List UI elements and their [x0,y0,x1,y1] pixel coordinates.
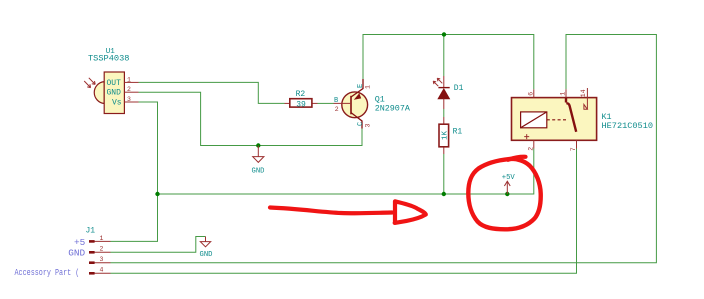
IR receiver U1 body [94,72,124,114]
GND label near J1 [200,251,213,259]
svg-text:3: 3 [100,256,104,263]
svg-text:+5: +5 [74,237,86,248]
svg-text:Vs: Vs [112,98,122,107]
connector J1 pin 1 [89,235,111,243]
svg-text:R1: R1 [453,127,463,136]
svg-text:2N2907A: 2N2907A [375,104,411,114]
wire +5V bus horizontal [158,149,534,195]
connector J1 pin 2 [89,246,111,254]
U1 pin name OUT [107,79,122,88]
junction node bus at Vs [155,192,159,196]
annotation red arrow [270,201,426,223]
svg-text:6: 6 [528,92,535,96]
wire J1 pin1 +5 up to bus [111,194,158,241]
junction node bus at R1 [442,192,446,196]
R2 reference label [296,90,306,99]
Q1 reference label [375,95,385,105]
wire top rail emitter to relay pin6 [363,35,534,90]
net label Accessory Part ( [15,268,80,278]
svg-text:14: 14 [580,89,587,97]
U1 pin name GND [107,89,122,98]
wire D1 branch from top rail [443,35,445,195]
D1 emission arrows [433,78,442,86]
svg-text:TSSP4038: TSSP4038 [88,53,130,63]
svg-text:3: 3 [364,124,371,128]
svg-text:2: 2 [127,86,131,93]
+5V label [502,174,516,182]
Q1 pin name C [357,122,365,126]
J1 reference label [86,226,96,235]
junction node GND tap [256,143,260,147]
resistor R1 [439,117,449,154]
wire U1 pin1 OUT to R2 [139,82,285,103]
D1 reference label [454,84,464,93]
ground symbol near J1 [200,237,210,247]
K1 reference label [602,112,612,122]
svg-text:7: 7 [570,147,577,151]
LED D1 [438,76,450,109]
Q1 pin number 3 [364,124,371,128]
resistor R2 [285,99,318,107]
Q1 value 2N2907A [375,104,411,114]
svg-text:1: 1 [560,92,567,96]
annotation red circle around +5V [468,157,540,230]
U1 IR input arrows [84,78,95,88]
Q1 pin name E [357,84,365,88]
ground symbol near U1 [253,146,264,163]
K1 pin 7 [570,140,577,151]
svg-text:GND: GND [252,168,265,176]
svg-text:3: 3 [127,96,131,103]
svg-text:1: 1 [364,85,371,89]
svg-text:D1: D1 [454,84,464,93]
svg-text:J1: J1 [86,226,96,235]
svg-text:4: 4 [100,267,104,274]
R1 value 1K [441,131,449,141]
U1 pin name Vs [112,98,122,107]
U1 pin 1 [124,76,138,83]
svg-text:+5V: +5V [502,174,516,182]
svg-text:1: 1 [100,235,104,242]
junction node bus at +5V [505,192,509,196]
svg-text:GND: GND [200,251,213,259]
wire R2 to Q1 base [318,102,334,104]
connector J1 pin 3 [89,256,111,264]
R2 value 39 [296,100,306,109]
svg-text:R2: R2 [296,90,306,99]
wire U1 pin3 Vs down to +5V bus [139,102,158,194]
connector J1 pin 4 [89,267,111,275]
transistor Q1 [334,79,368,129]
svg-text:GND: GND [107,89,122,98]
K1 value HE721C0510 [602,121,654,131]
U1 pin 2 [124,86,138,93]
relay K1 body [512,98,597,141]
K1 pin 1 [560,89,567,97]
wire J1 pin4 to relay pin7 [111,149,577,274]
svg-text:1K: 1K [441,131,449,141]
junction node top rail at D1 [442,32,446,36]
R1 reference label [453,127,463,136]
K1 pin 6 [528,89,535,97]
net label GND [68,248,85,259]
wire J1 pin2 to GND symbol [111,237,206,253]
svg-text:OUT: OUT [107,79,122,88]
svg-text:GND: GND [68,248,85,259]
Q1 pin number 2 [335,106,339,113]
U1 reference label [106,48,116,56]
svg-text:Accessory Part (: Accessory Part ( [15,268,80,278]
svg-text:B: B [334,97,338,105]
wire U1 pin2 GND to Q1 collector [139,92,363,145]
Q1 pin name B [334,97,338,105]
svg-text:1: 1 [127,76,131,83]
U1 value TSSP4038 [88,53,130,63]
power symbol +5V [504,181,510,194]
wire J1 pin3 long net to relay pin1 via right rail [111,35,657,263]
Q1 pin number 1 [364,85,371,89]
net label +5 [74,237,86,248]
svg-text:2: 2 [335,106,339,113]
K1 pin 14 [580,88,588,109]
svg-text:39: 39 [296,100,306,109]
svg-text:2: 2 [528,147,535,151]
svg-text:HE721C0510: HE721C0510 [602,121,654,131]
GND label near U1 [252,168,265,176]
U1 pin 3 [124,96,138,103]
K1 pin 2 [528,140,535,151]
svg-text:2: 2 [100,246,104,253]
